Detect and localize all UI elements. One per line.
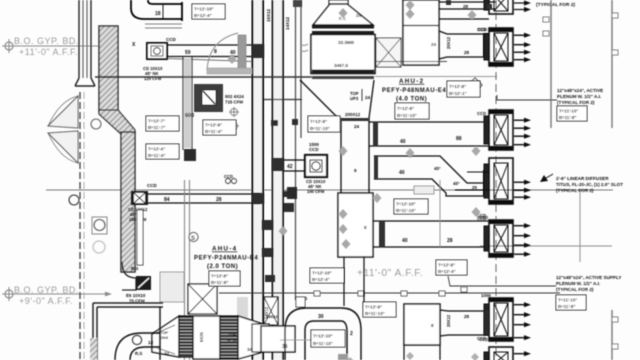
silencer white mid: [193, 316, 220, 359]
svg-text:CCD: CCD: [147, 183, 157, 188]
svg-text:100 CFM: 100 CFM: [307, 189, 325, 194]
svg-text:+11'-0" A.F.F.: +11'-0" A.F.F.: [19, 47, 78, 57]
wall fitting B: [284, 203, 294, 212]
boxed label B9: [394, 199, 428, 214]
crosshair symbols mid: [229, 107, 239, 131]
annotation B.O. GYP. BD. +11'-0" A.F.F.: [2, 36, 113, 57]
thin white duct strip: [137, 210, 143, 265]
duct segment right y172-190: [455, 172, 489, 190]
leader line lower text: [448, 276, 556, 286]
svg-text:28: 28: [463, 4, 469, 9]
duct stub 14X12: [252, 324, 269, 352]
annotation B.O. GYP. BD. +9'-0" A.F.F.: [2, 285, 112, 306]
left wall riser duct top: [75, 0, 95, 86]
AHU-2 hood: [313, 0, 373, 25]
svg-text:3467.5: 3467.5: [334, 63, 348, 68]
svg-text:B=11'-10": B=11'-10": [310, 126, 330, 131]
column gridline right A: [550, 0, 552, 128]
linear diffuser unit 4: [484, 158, 513, 204]
hanger ticks duct A: [446, 0, 451, 5]
boxed label B7: [395, 103, 429, 119]
svg-text:+9'-0" A.F.F.: +9'-0" A.F.F.: [19, 296, 73, 306]
lined duct column left: [91, 26, 135, 272]
CCD circles on trunk: [226, 179, 237, 184]
trunk hatch piece lower: [264, 297, 278, 325]
svg-text:T=11'-10": T=11'-10": [558, 298, 577, 303]
svg-text:T=12'-8": T=12'-8": [205, 123, 222, 128]
supply trunk duct pair A: [253, 0, 263, 360]
center diffuser CD 10X10 rings: [305, 142, 327, 194]
svg-text:20X12: 20X12: [446, 314, 451, 327]
svg-text:T=12'-10": T=12'-10": [194, 7, 214, 12]
svg-text:(TYPICAL FOR 2): (TYPICAL FOR 2): [556, 188, 594, 193]
svg-text:40: 40: [402, 238, 408, 244]
svg-text:33.3MB: 33.3MB: [338, 40, 355, 45]
leader line upper text: [497, 95, 557, 100]
svg-text:34: 34: [164, 351, 170, 356]
boxed label B11: [310, 268, 344, 283]
svg-text:T=12'-4": T=12'-4": [148, 147, 165, 152]
svg-text:20X12: 20X12: [446, 36, 451, 49]
arrows unit6: [514, 302, 531, 340]
gridline dashed x496: [495, 0, 497, 360]
big plenum box bottom right: [404, 304, 440, 345]
boxed label B4: [308, 116, 340, 132]
linear diffuser unit 2: [484, 28, 513, 66]
switch S circle: [189, 233, 198, 243]
boxed label B10: [436, 260, 467, 275]
column gridline right B: [611, 0, 613, 128]
svg-text:24: 24: [354, 124, 360, 129]
boxed label B12: [209, 271, 240, 286]
svg-text:T=12'-8": T=12'-8": [449, 84, 466, 89]
svg-text:600: 600: [185, 113, 194, 119]
supply trunk duct pair B: [273, 0, 283, 360]
svg-text:14X12: 14X12: [266, 314, 278, 319]
svg-text:AHU-4: AHU-4: [212, 246, 237, 253]
branch duct down x183: [183, 57, 192, 150]
E6 exhaust dark box: [126, 276, 151, 304]
svg-text:B=12'-4": B=12'-4": [194, 13, 212, 18]
gray damper diamonds scattered: [228, 0, 481, 249]
boxed label B6: [447, 81, 480, 97]
AHU-2 name: [382, 78, 446, 103]
gridline pair top center: [296, 0, 302, 300]
boxed label B15: [556, 295, 586, 310]
small dark box lower: [184, 149, 196, 161]
svg-text:B=11'-10": B=11'-10": [397, 113, 417, 118]
svg-text:2: 2: [350, 331, 353, 337]
svg-text:T=12'-8": T=12'-8": [365, 305, 382, 310]
svg-text:AHU-2: AHU-2: [399, 78, 424, 85]
svg-text:R.S: R.S: [135, 351, 142, 356]
svg-text:B=11'-10": B=11'-10": [313, 341, 333, 346]
box fixture w circle: [92, 217, 107, 234]
boxed label B2: [146, 116, 179, 131]
svg-text:T=12'-10": T=12'-10": [396, 202, 416, 207]
svg-text:T=12'-7": T=12'-7": [148, 119, 165, 124]
AHU-2 cabinet: [311, 35, 375, 80]
svg-text:84: 84: [164, 197, 170, 203]
svg-text:12: 12: [148, 340, 154, 345]
arrows unit5: [514, 223, 531, 257]
svg-text:CCD: CCD: [477, 111, 486, 116]
svg-text:S: S: [191, 236, 195, 242]
faint shade at bottom: [338, 354, 348, 360]
svg-text:TITUS, FL-20-JC, (1) 2.0" SLOT: TITUS, FL-20-JC, (1) 2.0" SLOT: [556, 182, 623, 187]
thin duct lines under elbow: [145, 24, 182, 28]
riser top transition bar: [341, 118, 369, 121]
linear diffuser unit 5: [484, 220, 513, 257]
svg-text:14X12: 14X12: [285, 16, 290, 30]
svg-text:28: 28: [464, 314, 470, 319]
svg-text:(TYPICAL FOR 2): (TYPICAL FOR 2): [536, 2, 575, 8]
svg-text:30: 30: [318, 314, 324, 320]
svg-text:CCD: CCD: [224, 174, 233, 179]
svg-text:T=12'-8": T=12'-8": [310, 119, 327, 124]
svg-text:45°: 45°: [434, 166, 441, 171]
svg-text:40: 40: [399, 170, 405, 176]
svg-text:+11'-0" A.F.F.: +11'-0" A.F.F.: [357, 268, 423, 279]
svg-text:PLENUM W. 1/2" A.I.: PLENUM W. 1/2" A.I.: [556, 281, 600, 286]
main duct to trunk y45: [167, 45, 252, 57]
boxed label B8: [557, 106, 587, 121]
linear diffuser note: [540, 174, 623, 193]
plenum box 36: [261, 326, 295, 352]
boxed label B1: [192, 4, 225, 19]
boxed label B13: [363, 302, 396, 317]
svg-text:(4.0 TON): (4.0 TON): [396, 97, 427, 103]
hanger box on ceiling line: [414, 186, 434, 194]
damper diamond symbol: [468, 78, 482, 92]
duct branch upper y122: [369, 122, 489, 146]
svg-text:12"x48"x24", ACTIVE SUPPLY: 12"x48"x24", ACTIVE SUPPLY: [556, 275, 621, 280]
svg-text:28: 28: [464, 50, 470, 55]
arrows unit1: [514, 0, 531, 12]
linear diffuser unit 6: [484, 298, 513, 341]
supply plenum box big: [403, 0, 439, 65]
svg-text:PEFY-P48NMAU-E4: PEFY-P48NMAU-E4: [382, 88, 446, 94]
svg-text:B=11'-8": B=11'-8": [559, 115, 576, 120]
diffuser CD 10X10 (square w rings): [143, 43, 167, 81]
duct break marks: [300, 44, 308, 52]
vertical duct rect E8: [338, 193, 373, 257]
svg-text:715 CFM: 715 CFM: [225, 100, 243, 105]
junction fitting trunk y159: [272, 158, 284, 171]
junction fitting trunk y194: [252, 193, 264, 204]
svg-text:8: 8: [364, 225, 367, 230]
bottom-left room wall: [93, 303, 163, 360]
svg-text:88: 88: [456, 136, 462, 142]
branch line y99: [264, 99, 302, 101]
ceiling line y=190: [46, 189, 613, 191]
svg-text:12"x48"x24", ACTIVE: 12"x48"x24", ACTIVE: [557, 88, 603, 93]
svg-text:24: 24: [365, 95, 371, 100]
branch duct trunk to CD: [283, 160, 305, 171]
stub top center: [293, 0, 302, 7]
duct to diffuser1: [439, 2, 496, 19]
mid-left duct y194: [148, 194, 260, 203]
bottom cone right: [238, 316, 263, 359]
faint circle: [93, 241, 105, 253]
AHU-4 name: [194, 246, 258, 271]
AHU-4 room wall: [184, 180, 186, 360]
gray diamonds bottom: [346, 352, 479, 360]
round duct symbol: [133, 336, 142, 345]
duct y221 to diffuser5: [373, 221, 489, 247]
svg-text:B=11'-10": B=11'-10": [365, 311, 385, 316]
active supply plenum note lower: [556, 275, 621, 292]
double door leaf 1: [48, 96, 78, 128]
register 902 dark box: [194, 84, 223, 112]
transition AHU-2 to riser: [300, 80, 374, 119]
linear diffuser unit 3: [484, 110, 513, 150]
junction fitting trunk-duct y45: [252, 44, 264, 58]
ceiling line y=246: [480, 245, 612, 247]
gridline gray x440: [439, 180, 441, 247]
ceiling line y293 w hangers: [219, 292, 560, 294]
boxed label B5: [146, 144, 179, 159]
return duct elbow to E6: [122, 262, 136, 290]
svg-text:59: 59: [185, 50, 191, 56]
junction fitting trunk y221: [262, 220, 273, 230]
double door leaf 2: [48, 131, 78, 163]
svg-text:26: 26: [472, 185, 477, 190]
boxed label B3: [203, 120, 236, 135]
svg-text:R.S: R.S: [131, 266, 138, 271]
svg-text:UP3: UP3: [350, 96, 359, 101]
wall fitting A: [284, 191, 295, 197]
lined duct dark B: [220, 316, 238, 359]
diffuser CD X-box 150CFM: [128, 191, 148, 222]
svg-text:6X25: 6X25: [199, 332, 204, 342]
left wall dashed: [79, 92, 81, 360]
trunk junction dark box: [287, 187, 297, 199]
svg-text:B=11'-7": B=11'-7": [148, 125, 165, 130]
return X-grille AHU-4: [188, 284, 217, 314]
svg-text:8: 8: [431, 323, 434, 328]
svg-text:B=11'-4": B=11'-4": [148, 153, 165, 158]
svg-text:902 4X24: 902 4X24: [225, 94, 244, 99]
svg-text:CCD: CCD: [166, 37, 176, 42]
svg-text:B=12'-1": B=12'-1": [449, 91, 467, 96]
svg-text:CCD: CCD: [309, 147, 319, 152]
svg-text:42: 42: [287, 164, 293, 170]
door arcs: [48, 96, 78, 163]
AHU-2 flange bars: [312, 26, 374, 29]
svg-text:B=11'-10": B=11'-10": [396, 208, 416, 213]
svg-text:(TYPICAL FOR 2): (TYPICAL FOR 2): [557, 100, 595, 105]
column gridline right B lower: [611, 310, 613, 360]
svg-text:B=11'-8": B=11'-8": [558, 304, 575, 309]
svg-text:(TYPICAL FOR 2): (TYPICAL FOR 2): [556, 287, 594, 292]
duct left bar y156: [374, 156, 378, 179]
svg-text:T=12'-10": T=12'-10": [312, 271, 332, 276]
svg-text:T=12'-10": T=12'-10": [313, 334, 333, 339]
svg-text:200X12: 200X12: [345, 112, 361, 117]
bottom fan coil cone left: [152, 316, 179, 357]
equipment gray box left: [160, 272, 184, 302]
arrows unit4: [514, 180, 531, 200]
svg-text:T=12'-8": T=12'-8": [438, 263, 455, 268]
arrows unit2: [514, 33, 531, 63]
svg-text:28: 28: [216, 197, 222, 203]
svg-text:16X12: 16X12: [266, 8, 271, 22]
svg-text:CCD: CCD: [479, 337, 488, 342]
svg-text:CCD: CCD: [479, 215, 488, 220]
svg-text:45°: 45°: [453, 181, 460, 186]
door arc w gray leaf: [207, 33, 238, 70]
transition to duct 28: [440, 310, 489, 336]
arrow unit7: [514, 351, 531, 356]
svg-text:T=11'-10": T=11'-10": [559, 109, 578, 114]
junction fitting trunk y305: [262, 248, 273, 257]
svg-text:B=12'-4": B=12'-4": [312, 277, 330, 282]
top-left elbow duct: [131, 0, 182, 21]
svg-text:1000: 1000: [481, 293, 491, 298]
svg-text:CCD: CCD: [478, 27, 487, 32]
circle fixture left wall: [69, 195, 79, 205]
trunk tap fitting: [271, 120, 278, 126]
linear diffuser unit 1: [484, 0, 513, 14]
svg-text:B=11'-8": B=11'-8": [211, 280, 228, 285]
svg-text:T=12'-8": T=12'-8": [397, 106, 414, 111]
svg-text:8: 8: [214, 49, 217, 55]
svg-text:40: 40: [400, 139, 406, 145]
bottom-left duct elbow: [115, 333, 160, 360]
lined duct dark A: [179, 316, 193, 357]
duct to diffuser2: [439, 31, 489, 59]
junction fitting trunk y275: [265, 275, 275, 282]
svg-text:E6 10X10: E6 10X10: [126, 293, 146, 298]
svg-text:9: 9: [354, 168, 357, 173]
svg-text:B=11'-4": B=11'-4": [205, 129, 222, 134]
svg-text:18: 18: [155, 11, 161, 17]
svg-text:28: 28: [447, 238, 453, 244]
svg-text:B=12'-4": B=12'-4": [438, 269, 456, 274]
svg-text:24: 24: [356, 13, 362, 18]
riser from above joining: [344, 257, 364, 308]
svg-text:(2.0 TON): (2.0 TON): [207, 264, 238, 270]
svg-text:UP11: UP11: [227, 337, 238, 342]
shaded chase: [237, 297, 248, 324]
ceiling thin line y76: [95, 76, 312, 78]
svg-text:PEFY-P24NMAU-E4: PEFY-P24NMAU-E4: [194, 256, 258, 262]
svg-text:DN9: DN9: [160, 335, 169, 340]
svg-text:24: 24: [431, 42, 437, 47]
svg-text:2'-6" LINEAR DIFFUSER: 2'-6" LINEAR DIFFUSER: [556, 176, 609, 181]
active supply plenum note upper: [557, 88, 603, 105]
svg-text:B.O. GYP. BD.: B.O. GYP. BD.: [14, 36, 79, 46]
return X-plenum: [376, 38, 401, 67]
svg-text:T=12'-8": T=12'-8": [211, 274, 228, 279]
linear diffuser unit 7 partial: [484, 347, 513, 360]
arrows unit3: [514, 118, 531, 148]
hanger ticks right lines: [543, 13, 618, 349]
bridge duct elbow up-over: [285, 308, 361, 360]
boxed label B14: [311, 330, 345, 347]
duct zigzag lower: [374, 156, 489, 196]
svg-text:PLENUM W. 1/2" A.I.: PLENUM W. 1/2" A.I.: [557, 94, 601, 99]
